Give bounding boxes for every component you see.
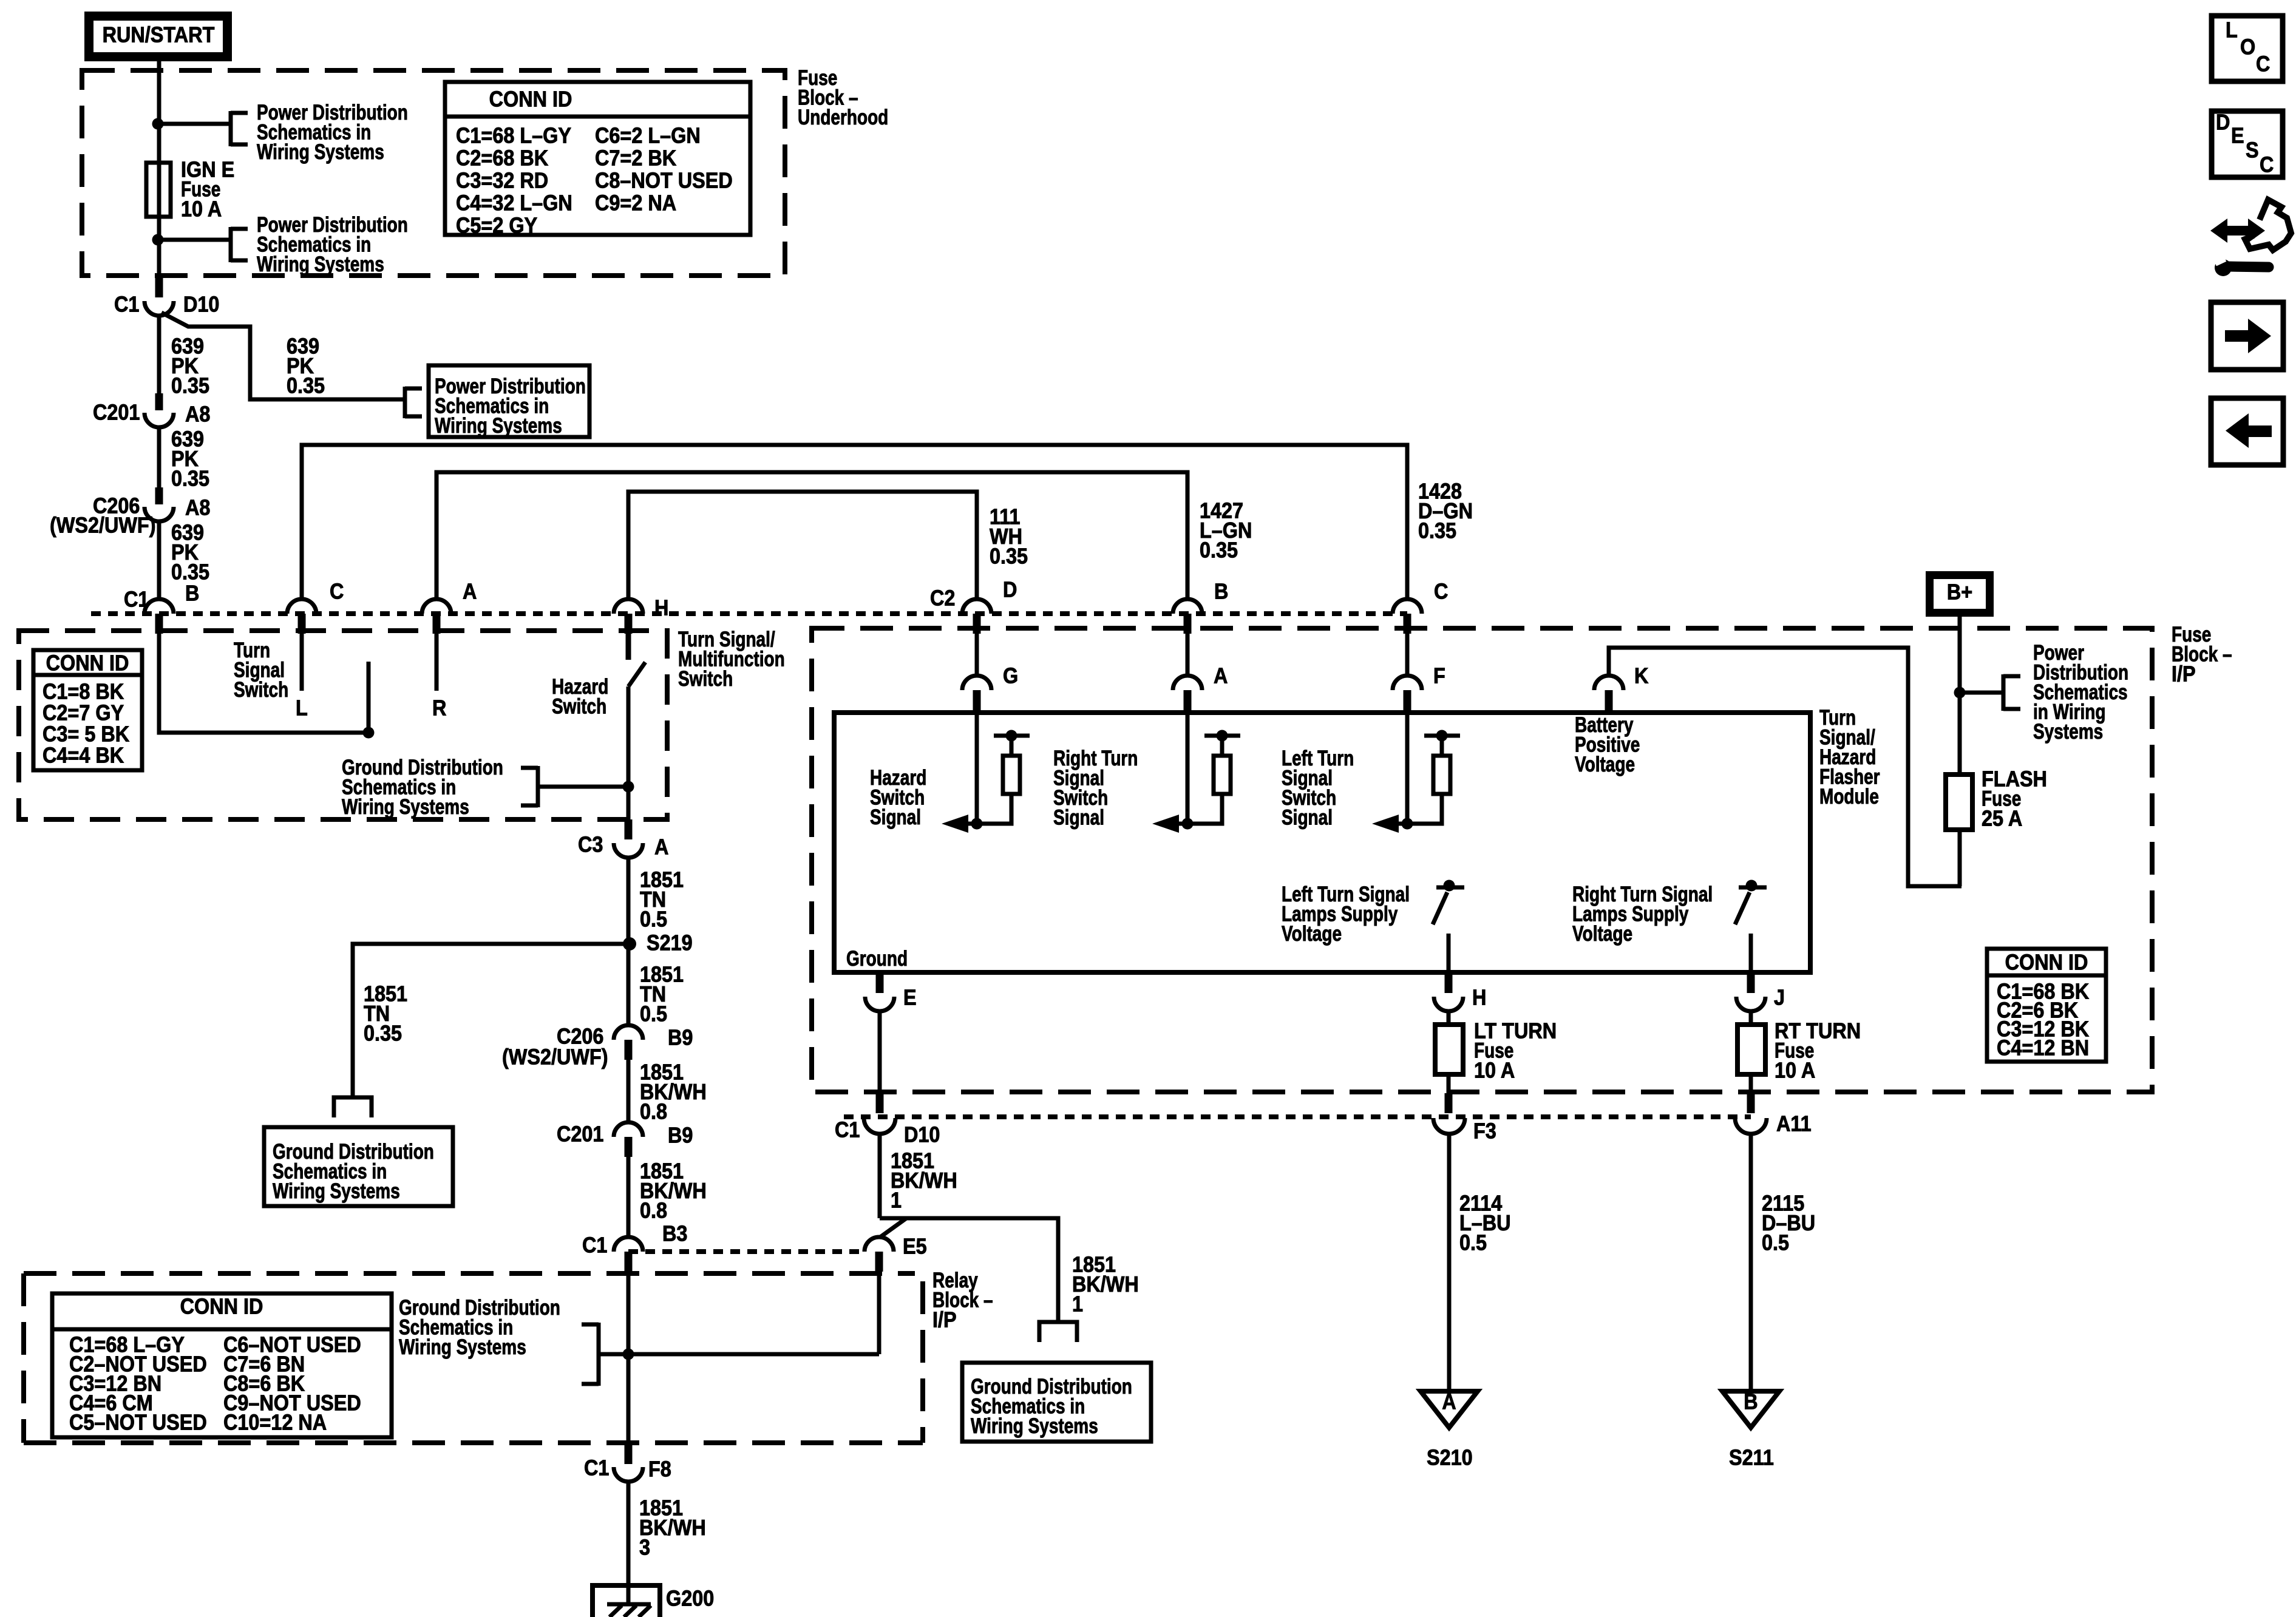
svg-text:(WS2/UWF): (WS2/UWF) [502,1045,608,1070]
wire J to RT fuse [1749,1011,1753,1025]
wire 639 PK 3 [157,521,161,600]
arrow right turn switch signal [1179,822,1222,826]
svg-text:S: S [2246,138,2259,163]
connector pin at x=497 row 1 [287,599,316,614]
wire IGN feed [157,56,161,277]
CONN ID table IP [1987,949,2106,1062]
wire branch to callout 2 [159,238,231,242]
callout bracket ground relay [597,1323,601,1386]
svg-text:A8: A8 [185,496,210,520]
svg-text:Wiring Systems: Wiring Systems [342,795,469,819]
svg-text:I/P: I/P [2172,662,2196,686]
svg-text:C2=7 GY: C2=7 GY [42,701,124,725]
svg-text:E5: E5 [903,1235,927,1259]
wire F input [1405,713,1410,824]
svg-text:B: B [185,581,199,606]
svg-text:0.35: 0.35 [171,374,209,398]
flasher contact right [1746,880,1758,892]
svg-text:H: H [1472,986,1486,1010]
resistor R2 right turn input [1204,734,1240,738]
svg-text:0.35: 0.35 [171,467,209,491]
svg-text:Wiring Systems: Wiring Systems [273,1179,400,1203]
svg-text:C4=32 L–GN: C4=32 L–GN [456,191,572,215]
fuse LT TURN 10A [1435,1025,1463,1074]
svg-text:D10: D10 [904,1123,940,1147]
svg-text:C7=2 BK: C7=2 BK [595,146,676,171]
power terminal B+ [1930,575,1990,613]
arrow left turn switch signal [1399,822,1442,826]
svg-text:C5=2 GY: C5=2 GY [456,214,537,238]
wire B3 down [627,1272,631,1444]
fuse block underhood (dashed box) [82,70,785,276]
wire D to G [975,634,979,677]
node junction 2 [152,234,164,246]
svg-text:C: C [330,580,344,604]
svg-text:0.5: 0.5 [640,907,667,932]
svg-text:0.8: 0.8 [640,1199,667,1223]
connector F3 [1445,1093,1453,1113]
svg-text:0.35: 0.35 [171,560,209,585]
svg-text:C4=4 BK: C4=4 BK [42,744,124,768]
box ground distribution 1 [264,1127,453,1206]
svg-text:C1: C1 [582,1233,607,1258]
svg-text:C: C [2256,52,2270,76]
fuse FLASH 25A [1946,775,1972,830]
svg-text:CONN ID: CONN ID [489,87,572,112]
svg-text:0.35: 0.35 [990,544,1028,569]
svg-text:Wiring Systems: Wiring Systems [257,252,384,276]
svg-text:K: K [1634,664,1649,688]
turn signal multifunction switch (dashed box) [19,631,667,819]
svg-text:(WS2/UWF): (WS2/UWF) [50,514,156,538]
svg-text:B: B [1744,1390,1758,1414]
svg-text:C1=68 L–GY: C1=68 L–GY [456,124,571,148]
off-page arrow B S211 [1722,1391,1779,1428]
connector pin at x=2318 row 1 [1393,599,1422,614]
svg-text:C1: C1 [584,1456,609,1480]
CONN ID table switch [33,650,142,770]
hazard switch arm [628,662,645,686]
wire C to F [1405,634,1410,677]
svg-text:B9: B9 [668,1124,693,1148]
node B+ junction [1954,687,1966,699]
connector pin J [1747,972,1755,993]
connector pin at x=1956 row 1 [1173,599,1202,614]
wire A input [1186,713,1190,824]
callout bracket B+ [2002,674,2006,711]
svg-text:Wiring Systems: Wiring Systems [435,413,562,438]
fuse block IP (dashed box) [812,628,2152,1092]
svg-text:S219: S219 [647,931,693,955]
svg-text:Switch: Switch [678,666,733,691]
svg-text:E: E [903,986,917,1010]
node relay junction [623,1349,634,1360]
svg-text:B9: B9 [668,1026,693,1050]
svg-text:3: 3 [639,1536,650,1560]
CONN ID table underhood [445,82,750,235]
wire 639 PK 2 [157,427,161,487]
wire E5 drop [877,1272,881,1354]
svg-text:Voltage: Voltage [1282,921,1342,946]
svg-text:Underhood: Underhood [798,105,888,129]
svg-text:Wiring Systems: Wiring Systems [971,1414,1098,1438]
svg-text:0.5: 0.5 [1459,1231,1487,1255]
connector E5 [864,1237,894,1252]
svg-text:C201: C201 [557,1122,603,1147]
svg-text:0.5: 0.5 [1762,1231,1789,1255]
wire contact L [300,634,304,691]
hazard switch contact [626,634,631,660]
svg-text:C3= 5 BK: C3= 5 BK [42,722,129,747]
svg-text:J: J [1774,986,1785,1010]
wire 1851 BK/WH 1 [878,1134,882,1218]
wire bus 1 [302,445,1407,600]
wire switch arm riser [367,662,371,733]
svg-text:Signal: Signal [1053,805,1104,829]
svg-text:0.8: 0.8 [640,1100,667,1124]
svg-text:Wiring Systems: Wiring Systems [399,1335,526,1359]
svg-text:C: C [2260,153,2274,177]
wire D10 corner to terminal [880,1218,1058,1322]
connector pin H [1445,972,1453,993]
svg-text:S210: S210 [1427,1446,1473,1470]
callout bracket 2 [229,227,233,262]
connector C206 pin A8 [155,487,163,504]
svg-text:A8: A8 [185,402,210,427]
node A junction [1182,818,1194,830]
svg-text:1: 1 [891,1188,902,1213]
fuse IGN E 10A [146,163,171,217]
svg-text:B: B [1214,580,1228,604]
svg-text:Signal: Signal [1282,805,1333,829]
wire branch 639 PK to callout [161,313,403,399]
svg-text:O: O [2240,35,2255,59]
node junction 1 [152,118,164,130]
wire H to LT fuse [1447,1011,1451,1025]
svg-text:A11: A11 [1776,1112,1812,1136]
wire to ground callout [540,785,628,789]
connector pin K module [1594,676,1623,690]
svg-text:C4=12 BN: C4=12 BN [1997,1036,2089,1060]
relay block IP (dashed box) [24,1271,915,1276]
connector row E5 (dotted) [628,1249,864,1254]
svg-text:G: G [1003,664,1018,688]
node splice S219 [623,937,636,951]
icon DESC [2212,111,2283,177]
wire E down [878,1011,882,1093]
svg-text:0.5: 0.5 [640,1002,667,1026]
svg-text:B+: B+ [1947,580,1972,605]
connector C1 pin D10 relay [876,1093,884,1113]
fuse RT TURN 10A [1737,1025,1765,1074]
svg-text:D: D [2216,110,2230,135]
node arm junction [363,727,375,739]
node F junction [1402,818,1413,830]
svg-text:G200: G200 [666,1587,714,1611]
wire 2115 D-BU [1749,1134,1753,1391]
wire 639 PK [157,314,161,393]
icon LOC [2212,16,2283,81]
svg-text:Wiring Systems: Wiring Systems [257,140,384,164]
svg-text:Ground: Ground [846,946,908,971]
svg-text:C: C [1434,580,1448,604]
svg-text:A: A [1214,664,1228,688]
svg-text:Module: Module [1819,784,1879,808]
svg-text:0.35: 0.35 [364,1022,402,1046]
svg-text:D10: D10 [183,293,219,317]
svg-text:D: D [1003,578,1017,602]
connector pin at x=719 row 1 [422,599,451,614]
svg-text:CONN ID: CONN ID [46,651,129,676]
wire 1851 BK/WH 0.8 again [627,1157,631,1237]
connector row 3 (dotted) [844,1114,1751,1119]
svg-text:Voltage: Voltage [1572,921,1632,946]
wire B+ down [1958,617,1962,776]
svg-text:A: A [1442,1390,1456,1414]
node G junction [971,818,983,830]
wire K to flash fuse [1609,648,1961,886]
svg-text:C2=68 BK: C2=68 BK [456,146,548,171]
svg-text:C5–NOT USED: C5–NOT USED [69,1411,207,1435]
svg-text:C10=12 NA: C10=12 NA [223,1411,327,1435]
wire hazard to ground junction [627,686,631,819]
icon arrow right [2211,302,2283,370]
svg-text:C3=32 RD: C3=32 RD [456,169,548,193]
svg-text:L: L [2226,18,2238,42]
wire relay junction horizontal [600,1352,879,1357]
svg-text:E: E [2231,124,2244,148]
wire 2114 L-BU [1447,1134,1452,1391]
svg-text:H: H [654,596,668,620]
svg-text:C3: C3 [578,833,603,857]
connector pin at x=262 row 1 [144,599,174,614]
terminal staple S219 branch [334,1097,372,1117]
flasher module box [834,713,1810,972]
wire 1851 BK/WH 0.8 [627,1060,631,1122]
CONN ID table relay [52,1293,392,1437]
callout bracket ground switch [536,766,540,807]
connector pin at x=1609 row 1 [962,599,991,614]
svg-text:10 A: 10 A [1775,1059,1815,1083]
svg-text:Voltage: Voltage [1575,752,1635,776]
wire S219 branch [353,944,628,1097]
svg-text:C8–NOT USED: C8–NOT USED [595,169,733,193]
connector pin A module [1173,676,1202,690]
wire switch pole B [159,634,369,733]
wire bus 2 [436,472,1187,600]
svg-text:C2: C2 [930,586,955,611]
svg-text:10 A: 10 A [1474,1059,1515,1083]
connector C1 pin B3 [614,1237,643,1252]
svg-text:C1=8 BK: C1=8 BK [42,680,124,704]
connector pin E [876,972,884,993]
wire contact R [435,634,439,691]
svg-text:C9=2 NA: C9=2 NA [595,191,676,215]
wire bus 3 [628,492,977,600]
connector C3 pin A [625,819,633,839]
svg-text:A: A [463,580,477,604]
svg-text:0.35: 0.35 [1418,519,1456,543]
wire flash fuse down [1958,830,1962,886]
connector pin at x=1035 row 1 [614,599,643,614]
svg-text:F3: F3 [1473,1119,1496,1144]
connector pin F module [1393,676,1422,690]
icon shift/wrench [2210,219,2265,243]
svg-text:I/P: I/P [932,1308,957,1332]
svg-text:C1: C1 [114,293,139,317]
svg-text:0.35: 0.35 [287,374,325,398]
callout bracket 3 [403,387,407,418]
svg-text:A: A [654,835,668,859]
connector row 1 (dotted) [91,611,1407,616]
wire to callout B+ [1960,691,2003,695]
connector C201 pin B9 [614,1122,643,1137]
icon arrow left [2211,398,2283,465]
connector C1 pin D10 [155,277,163,297]
ground G200 [593,1585,660,1617]
svg-text:0.35: 0.35 [1200,538,1238,563]
svg-text:Systems: Systems [2033,719,2103,744]
wire diagonal into E5 [880,1218,906,1237]
connector C1 pin F8 [625,1444,633,1464]
box power distribution schematics [429,365,589,437]
connector A11 [1747,1093,1755,1113]
svg-text:Signal: Signal [870,805,921,829]
terminal staple D10 branch [1039,1322,1077,1342]
connector C201 pin A8 [155,393,163,410]
wire branch to callout 1 [159,122,231,126]
svg-text:10 A: 10 A [181,197,222,222]
arrow hazard switch signal [968,822,1011,826]
svg-text:1: 1 [1072,1292,1083,1317]
connector pin G module [962,676,991,690]
svg-text:Switch: Switch [552,694,606,718]
svg-text:CONN ID: CONN ID [2005,951,2088,975]
svg-text:C1: C1 [124,588,149,612]
svg-text:S211: S211 [1729,1446,1774,1470]
off-page arrow A S210 [1421,1391,1478,1428]
node ground callout junction [623,781,634,793]
power terminal RUN/START [89,16,228,57]
svg-text:B3: B3 [662,1222,687,1246]
wire 1851 BK/WH 3 [627,1482,631,1605]
connector C206 pin B9 [614,1025,643,1040]
resistor R3 left turn input [1424,734,1460,738]
svg-text:C201: C201 [93,401,140,425]
flasher contact left [1444,880,1455,892]
svg-text:C6=2 L–GN: C6=2 L–GN [595,124,701,148]
svg-text:Switch: Switch [234,677,288,702]
svg-text:F8: F8 [648,1457,671,1482]
resistor R1 hazard input [994,734,1030,738]
svg-text:R: R [432,696,447,720]
svg-text:C1: C1 [835,1118,860,1142]
svg-text:L: L [296,696,308,720]
wire G input [975,713,979,824]
svg-text:F: F [1433,664,1445,688]
callout bracket 1 [229,111,233,146]
box ground distribution 2 [962,1363,1151,1442]
svg-text:CONN ID: CONN ID [180,1295,263,1319]
svg-text:RUN/START: RUN/START [103,23,215,47]
wire B to A [1186,634,1190,677]
svg-text:25 A: 25 A [1982,807,2022,831]
wire 1851 TN [627,858,631,1026]
